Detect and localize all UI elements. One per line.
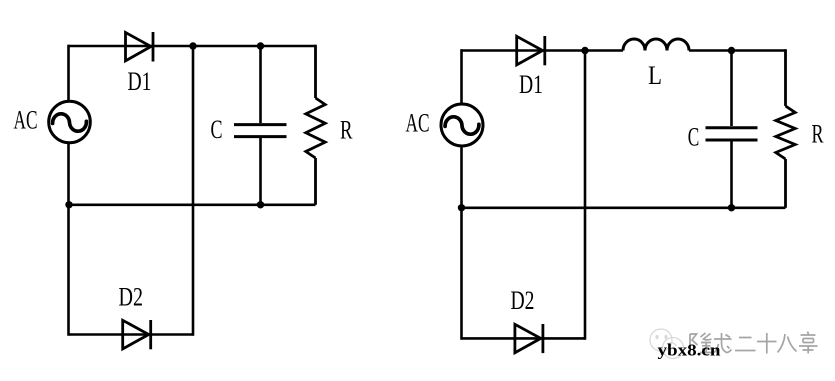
- inductor L: [623, 39, 689, 51]
- wire bottom rail right circuit: [462, 337, 585, 340]
- capacitor C right plates: [706, 128, 758, 140]
- resistor R left: [306, 45, 325, 205]
- wire mid rail left circuit: [69, 204, 316, 207]
- svg-text:AC: AC: [14, 106, 38, 135]
- svg-text:D1: D1: [519, 70, 543, 99]
- junction dot right mid x=461.5: [458, 204, 465, 211]
- wire bottom rail left circuit: [69, 333, 193, 336]
- junction dot right top x=731.5: [728, 47, 735, 54]
- char 隆: [690, 334, 698, 352]
- junction dot right top x=585: [581, 47, 588, 54]
- junction dot right mid x=731.5: [728, 204, 735, 211]
- svg-text:R: R: [812, 120, 824, 149]
- wire AC branch right (x=461.5): [460, 49, 463, 340]
- junction dot left top x=260.5: [257, 42, 264, 49]
- wire top rail right circuit (with gap for inductor): [462, 49, 786, 52]
- watermark logo outline: [650, 329, 684, 359]
- junction dot left mid x=260.5: [257, 201, 264, 208]
- wire mid rail right circuit: [462, 207, 786, 210]
- AC source right: [441, 104, 483, 146]
- svg-text:R: R: [340, 116, 353, 145]
- wire bridge vertical right (x=585): [584, 51, 587, 340]
- diode D2 left: [123, 320, 151, 349]
- svg-text:ybx8.cn: ybx8.cn: [658, 341, 721, 360]
- junction dot left top x=193: [189, 42, 196, 49]
- wire AC branch left (x=68.5): [67, 45, 70, 336]
- svg-text:D1: D1: [128, 67, 152, 96]
- svg-text:D2: D2: [119, 283, 144, 312]
- AC source left: [49, 101, 91, 143]
- svg-text:C: C: [688, 122, 700, 151]
- char 八: [778, 334, 797, 353]
- diode D2 right: [515, 324, 543, 353]
- svg-text:C: C: [211, 115, 223, 144]
- char 十: [757, 333, 777, 354]
- capacitor C left branch wires: [259, 46, 262, 205]
- diode D1 left: [126, 32, 154, 62]
- char 章: [799, 332, 818, 354]
- wire top rail left circuit: [69, 45, 316, 48]
- resistor R right: [776, 49, 795, 208]
- svg-text:AC: AC: [406, 109, 430, 138]
- svg-text:L: L: [648, 61, 662, 90]
- wire bridge vertical left (x=193): [192, 46, 195, 336]
- junction dot left mid x=69: [65, 201, 72, 208]
- diode D1 right: [517, 36, 545, 65]
- svg-text:D2: D2: [511, 286, 535, 315]
- capacitor C left plates: [234, 125, 287, 137]
- char 龙: [714, 333, 732, 353]
- char 二: [735, 338, 756, 351]
- watermark chinese text 隆龙二十八章 (drawn strokes): [690, 332, 818, 354]
- capacitor C right branch wires: [730, 51, 733, 208]
